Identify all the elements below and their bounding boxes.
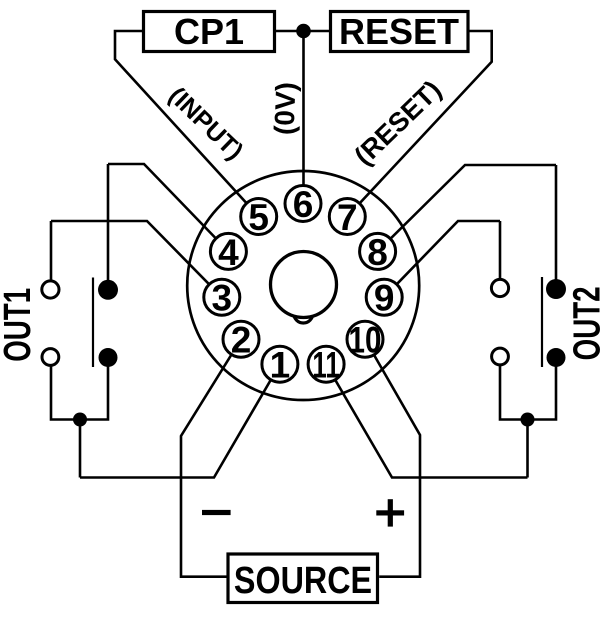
svg-text:(INPUT): (INPUT) bbox=[163, 82, 248, 166]
svg-text:RESET: RESET bbox=[339, 11, 459, 52]
svg-text:6: 6 bbox=[293, 184, 314, 225]
svg-text:11: 11 bbox=[312, 344, 339, 386]
svg-text:10: 10 bbox=[349, 321, 382, 362]
svg-text:5: 5 bbox=[248, 197, 269, 238]
svg-text:2: 2 bbox=[231, 320, 252, 361]
svg-text:1: 1 bbox=[270, 345, 291, 386]
svg-text:OUT1: OUT1 bbox=[0, 288, 39, 362]
svg-text:8: 8 bbox=[367, 232, 388, 273]
svg-text:(0V): (0V) bbox=[269, 82, 302, 136]
svg-text:SOURCE: SOURCE bbox=[234, 560, 372, 602]
svg-text:4: 4 bbox=[218, 232, 239, 273]
svg-text:3: 3 bbox=[212, 278, 233, 319]
svg-text:(RESET): (RESET) bbox=[349, 75, 448, 172]
svg-text:9: 9 bbox=[374, 278, 395, 319]
svg-text:CP1: CP1 bbox=[174, 11, 244, 52]
svg-text:7: 7 bbox=[337, 197, 358, 238]
svg-text:OUT2: OUT2 bbox=[566, 286, 600, 360]
